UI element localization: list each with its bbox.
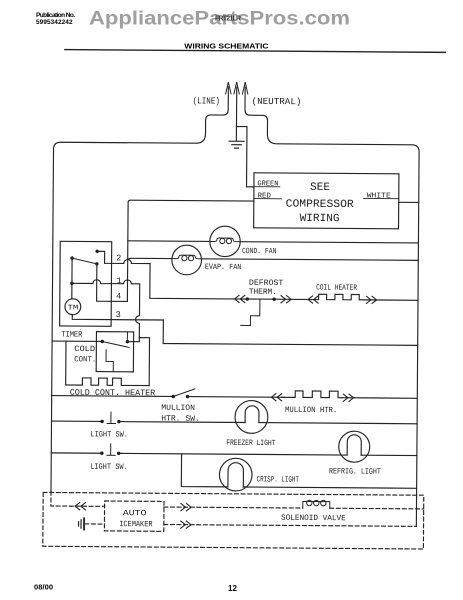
wire: C down to row 4 to red bus (97, 264, 128, 302)
dashed wire icemaker lower right (164, 525, 416, 527)
coil heater connector << (308, 296, 318, 303)
svg-text:4: 4 (116, 291, 121, 301)
defrost therm element (241, 299, 260, 326)
wire mullion heater to right bus (342, 397, 417, 400)
svg-text:THERM.: THERM. (249, 288, 277, 297)
wire: branch to heater right end (139, 338, 150, 386)
svg-text:FREEZER LIGHT: FREEZER LIGHT (226, 439, 275, 448)
cold control left contact dot (101, 340, 104, 343)
svg-text:TIMER: TIMER (61, 330, 82, 339)
cold cont heater element (66, 378, 150, 386)
green label underline (254, 186, 280, 188)
wire across to refrig light and right bus (119, 453, 417, 455)
plug prong ground arrowhead (234, 82, 239, 94)
coil heater element (315, 294, 365, 300)
svg-text:WIRING: WIRING (300, 213, 340, 225)
svg-text:COLD: COLD (74, 345, 95, 354)
wire: left bus feed to cold control (52, 340, 102, 342)
wire: red from compressor to bus, down to timer row 4 (127, 200, 253, 302)
svg-text:TM: TM (68, 304, 79, 312)
mullion heater connector >> (343, 394, 353, 401)
auto icemaker box (104, 501, 164, 531)
plug prong LINE arrowhead (226, 82, 231, 94)
timer motor TM (65, 299, 81, 315)
dashed wire solenoid to dashed box edge (330, 507, 424, 510)
svg-text:SOLENOID VALVE: SOLENOID VALVE (281, 514, 346, 523)
svg-text:ICEMAKER: ICEMAKER (119, 520, 153, 529)
wire to freezer light (119, 421, 245, 424)
dashed wire icemaker upper right (164, 507, 303, 508)
svg-text:WIRING SCHEMATIC: WIRING SCHEMATIC (184, 42, 269, 51)
light switch 1 dots (100, 420, 103, 423)
svg-text:FRT21LR: FRT21LR (215, 16, 241, 23)
icemaker connector << (75, 503, 85, 510)
svg-text:12: 12 (228, 584, 238, 593)
svg-text:5995342242: 5995342242 (36, 19, 73, 26)
svg-text:1: 1 (116, 276, 121, 286)
cold control right contact stub (126, 332, 128, 342)
wire to mullion heater (187, 396, 284, 399)
red label underline (254, 198, 282, 200)
wire: ground prong down (235, 87, 237, 140)
white label underline (364, 197, 399, 199)
svg-text:CONT.: CONT. (74, 355, 96, 364)
svg-text:LIGHT SW.: LIGHT SW. (90, 430, 128, 439)
svg-text:Publication No.: Publication No. (36, 12, 75, 19)
svg-text:WHITE: WHITE (367, 192, 392, 200)
wire: mullion row from left bus (52, 395, 172, 398)
plug prong NEUTRAL arrowhead (242, 82, 247, 94)
defrost therm contact dots and wire (246, 297, 249, 300)
defrost row: connector >> (281, 296, 291, 303)
row 1 junction dot (70, 282, 73, 285)
timer arm B-C (72, 258, 97, 264)
wire: neutral prong to right bus (outer right outline) (242, 87, 420, 526)
svg-text:AUTO: AUTO (123, 509, 147, 518)
wire: row 1 with hops, down right side to cold control (72, 279, 140, 337)
svg-text:3: 3 (116, 310, 121, 320)
svg-text:COMPRESSOR: COMPRESSOR (286, 199, 354, 212)
coil heater connector >> (366, 296, 376, 303)
wire: branch down to crisper light row (181, 454, 228, 487)
svg-text:08/00: 08/00 (34, 583, 53, 592)
cold control bellows element (106, 350, 113, 372)
dashed wire ground to icemaker box (85, 523, 105, 525)
wire: drop to cold cont heater (65, 341, 67, 385)
svg-text:MULLION: MULLION (161, 404, 195, 413)
mullion switch dots (172, 395, 175, 398)
svg-text:COIL HEATER: COIL HEATER (316, 284, 357, 293)
icemaker chassis ground (79, 520, 82, 528)
svg-text:EVAP. FAN: EVAP. FAN (205, 263, 242, 272)
node A dot (95, 250, 98, 253)
icemaker upper connector >> (181, 504, 191, 511)
timer pivot B dot (70, 256, 73, 259)
title rule (65, 50, 445, 53)
cold control right contact dot (126, 340, 129, 343)
wire: cond fan row (128, 241, 419, 243)
cold control box (96, 332, 133, 372)
icemaker dashed enclosure (43, 492, 424, 549)
wire: evap fan row (128, 258, 419, 261)
timer box (60, 241, 112, 326)
wire: white from compressor to right bus (399, 201, 419, 203)
wire: B down to row1 node and TM (71, 258, 73, 299)
refrig light (339, 431, 370, 462)
svg-text:GREEN: GREEN (257, 180, 278, 188)
svg-text:LIGHT SW.: LIGHT SW. (90, 463, 128, 472)
freezer light (235, 400, 268, 433)
solenoid valve coil (303, 501, 330, 508)
wire: second light row from left bus (51, 452, 100, 454)
icemaker lower connector >> (181, 521, 191, 528)
svg-text:COND. FAN: COND. FAN (242, 247, 277, 256)
wire: down to cold control right contact (127, 338, 139, 342)
wire: freezer light row from left bus (52, 420, 101, 422)
cond fan motor (210, 226, 241, 257)
mullion switch arm (173, 389, 195, 397)
svg-text:DEFROST: DEFROST (249, 279, 284, 288)
wire to coil heater (274, 298, 315, 300)
compressor box (254, 173, 399, 229)
ground symbol (229, 141, 244, 148)
svg-text:CRISP. LIGHT: CRISP. LIGHT (257, 475, 300, 484)
wire: line prong to left bus (outer left outline down to icemaker) (51, 86, 228, 493)
node C dot (95, 262, 98, 265)
wire freezer light to right bus (259, 423, 417, 424)
mullion heater connector << (271, 394, 281, 401)
wire: TM to row 3 out to right bus (72, 315, 418, 346)
svg-text:SEE: SEE (310, 182, 330, 194)
wire: green ground wire to compressor (236, 127, 254, 187)
wire crisper light to right bus (243, 487, 416, 488)
evap fan motor (172, 245, 202, 275)
wire coil heater to right bus (365, 299, 418, 301)
svg-text:RED: RED (258, 192, 272, 200)
mullion heater element (282, 391, 342, 398)
svg-text:(NEUTRAL): (NEUTRAL) (252, 96, 302, 107)
timer contact 2 wire from contact A with hop over red bus, to defrost feed (97, 251, 248, 299)
wire: left bus into icemaker circuit (51, 491, 105, 506)
defrost row: connector << (234, 295, 244, 302)
crisper light (219, 458, 252, 491)
svg-text:REFRIG. LIGHT: REFRIG. LIGHT (329, 467, 381, 476)
svg-text:MULLION HTR.: MULLION HTR. (285, 406, 337, 415)
light switch 2 plunger (107, 444, 115, 456)
cold control arm (102, 341, 129, 347)
svg-text:2: 2 (116, 253, 121, 263)
light switch 2 dots (100, 452, 103, 455)
light switch 1 plunger (107, 412, 115, 424)
svg-text:(LINE): (LINE) (193, 95, 220, 106)
